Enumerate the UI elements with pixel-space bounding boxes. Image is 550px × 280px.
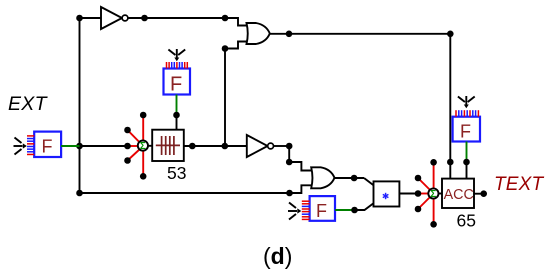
node ACC output terminal <box>480 190 487 197</box>
wire red horizontal into S2 <box>418 193 434 195</box>
svg-text:F: F <box>42 137 53 157</box>
svg-text:Σ: Σ <box>140 141 146 152</box>
wire step into U4 bottom input <box>290 185 312 193</box>
svg-text:Σ: Σ <box>430 189 436 200</box>
node joint below F4 <box>463 159 470 166</box>
node input junction S1 <box>124 143 131 150</box>
accumulator ACC box <box>442 179 474 208</box>
input arrow into F3 <box>288 203 301 220</box>
wire U4 output <box>335 177 365 179</box>
input arrow into F4 <box>458 96 475 108</box>
node joint on U1 output <box>141 15 148 22</box>
wire diagonal into multiplier bottom input <box>355 203 374 210</box>
svg-text:EXT: EXT <box>8 93 49 115</box>
flip-flop F1 (EXT input register) <box>34 132 61 157</box>
wire red diagonal upper-left S2 <box>418 178 434 194</box>
wire F3 output (green) <box>335 209 355 211</box>
node joint U4 output <box>351 175 358 182</box>
wire bottom long from left bus to U4 <box>80 192 290 194</box>
wire step into U4 top input <box>289 162 311 171</box>
node joint on 53 output <box>189 143 196 150</box>
wire F2 output (green) <box>176 95 178 116</box>
wire S1 to register 53 <box>148 145 152 147</box>
pin comb F2 data inputs <box>167 62 188 69</box>
inverter U1 <box>101 7 128 29</box>
wire red horizontal into S1 <box>128 145 144 147</box>
wire red diagonal upper-left S1 <box>128 130 144 146</box>
node junction left-mid <box>76 143 83 150</box>
wire red diagonal lower-left S2 <box>418 194 434 210</box>
flip-flop F2 (top register) <box>164 69 191 96</box>
svg-text:ACC: ACC <box>444 187 474 203</box>
wire register 53 output to inverter U3 <box>184 145 247 147</box>
svg-text:TEXT: TEXT <box>494 174 545 195</box>
wire step into U2 top input <box>225 18 247 26</box>
node joint F3 output <box>351 207 358 214</box>
wire F1 output (green) <box>61 145 79 147</box>
node input junction S2 <box>415 190 422 197</box>
svg-text:F: F <box>170 74 182 96</box>
node junction U4 top input <box>286 159 293 166</box>
or-gate U2 <box>247 23 270 44</box>
node junction left-bottom <box>76 190 83 197</box>
inverter U3 <box>247 135 274 157</box>
wire into register 53 top <box>176 115 178 130</box>
svg-text:F: F <box>460 122 471 142</box>
node stub bottom of S2 <box>430 221 437 228</box>
or-gate U4 <box>311 167 334 188</box>
pin comb F1 data inputs <box>27 136 34 155</box>
node joint on right vertical <box>447 159 454 166</box>
wire U2 output across top <box>270 33 451 35</box>
node stub bottom of S1 <box>140 173 147 180</box>
svg-text:53: 53 <box>167 163 186 183</box>
flip-flop F3 (bottom register) <box>310 196 335 221</box>
node junction feedback to U2 <box>222 143 229 150</box>
wire right vertical down to ACC <box>449 34 451 179</box>
sum node S2 red fanout vertical <box>433 162 435 224</box>
input arrow into F1 <box>14 138 27 155</box>
wire vertical down to OR U4 <box>288 146 290 162</box>
wire U3 output <box>274 145 290 147</box>
wire diagonal into multiplier top input <box>364 178 374 185</box>
wire ACC output <box>474 193 484 195</box>
svg-text:F: F <box>316 201 327 221</box>
sum node S1 red fanout vertical <box>142 115 144 176</box>
node stub upper-left S2 <box>415 175 422 182</box>
wire U1 output to OR gate U2 <box>128 17 225 19</box>
svg-text:65: 65 <box>457 211 476 231</box>
node junction U4 bottom input <box>286 190 293 197</box>
node junction U2 bottom input <box>222 45 229 52</box>
wire F4 output (green) <box>466 142 468 163</box>
node junction left-top <box>76 15 83 22</box>
sum node S2 circle <box>428 188 438 200</box>
node stub upper-left S1 <box>124 127 131 134</box>
node junction U2 top input <box>222 15 229 22</box>
wire multiplier output to sum node S2 <box>399 193 418 195</box>
wire left vertical bus <box>79 18 81 193</box>
node joint on U2 output <box>286 31 293 38</box>
node stub top of S2 <box>430 159 437 166</box>
pin comb F4 data inputs <box>456 110 478 117</box>
wire S2 to ACC box <box>438 193 442 195</box>
sum node S1 circle <box>138 141 148 153</box>
pin comb F3 data inputs <box>302 201 310 219</box>
node stub lower-left S1 <box>124 157 131 164</box>
node corner top-right <box>447 31 454 38</box>
svg-text:(d): (d) <box>263 243 292 269</box>
wire red diagonal lower-left S1 <box>128 146 144 161</box>
wire vertical from U2 bottom input down to feedback row <box>224 49 226 147</box>
register 53 box <box>152 130 184 161</box>
node joint U3 output <box>286 143 293 150</box>
node stub top of S1 <box>140 112 147 119</box>
node joint below F2 <box>173 112 180 119</box>
flip-flop F4 (right register) <box>453 117 480 142</box>
wire step into U2 bottom input <box>225 42 247 49</box>
wire inverter U1 input <box>80 17 102 19</box>
input arrow into F2 <box>168 49 185 61</box>
node stub lower-left S2 <box>415 206 422 213</box>
wire bus to sum node <box>80 145 128 147</box>
wire into ACC top right pin <box>466 162 468 179</box>
multiplier * box <box>374 181 400 206</box>
